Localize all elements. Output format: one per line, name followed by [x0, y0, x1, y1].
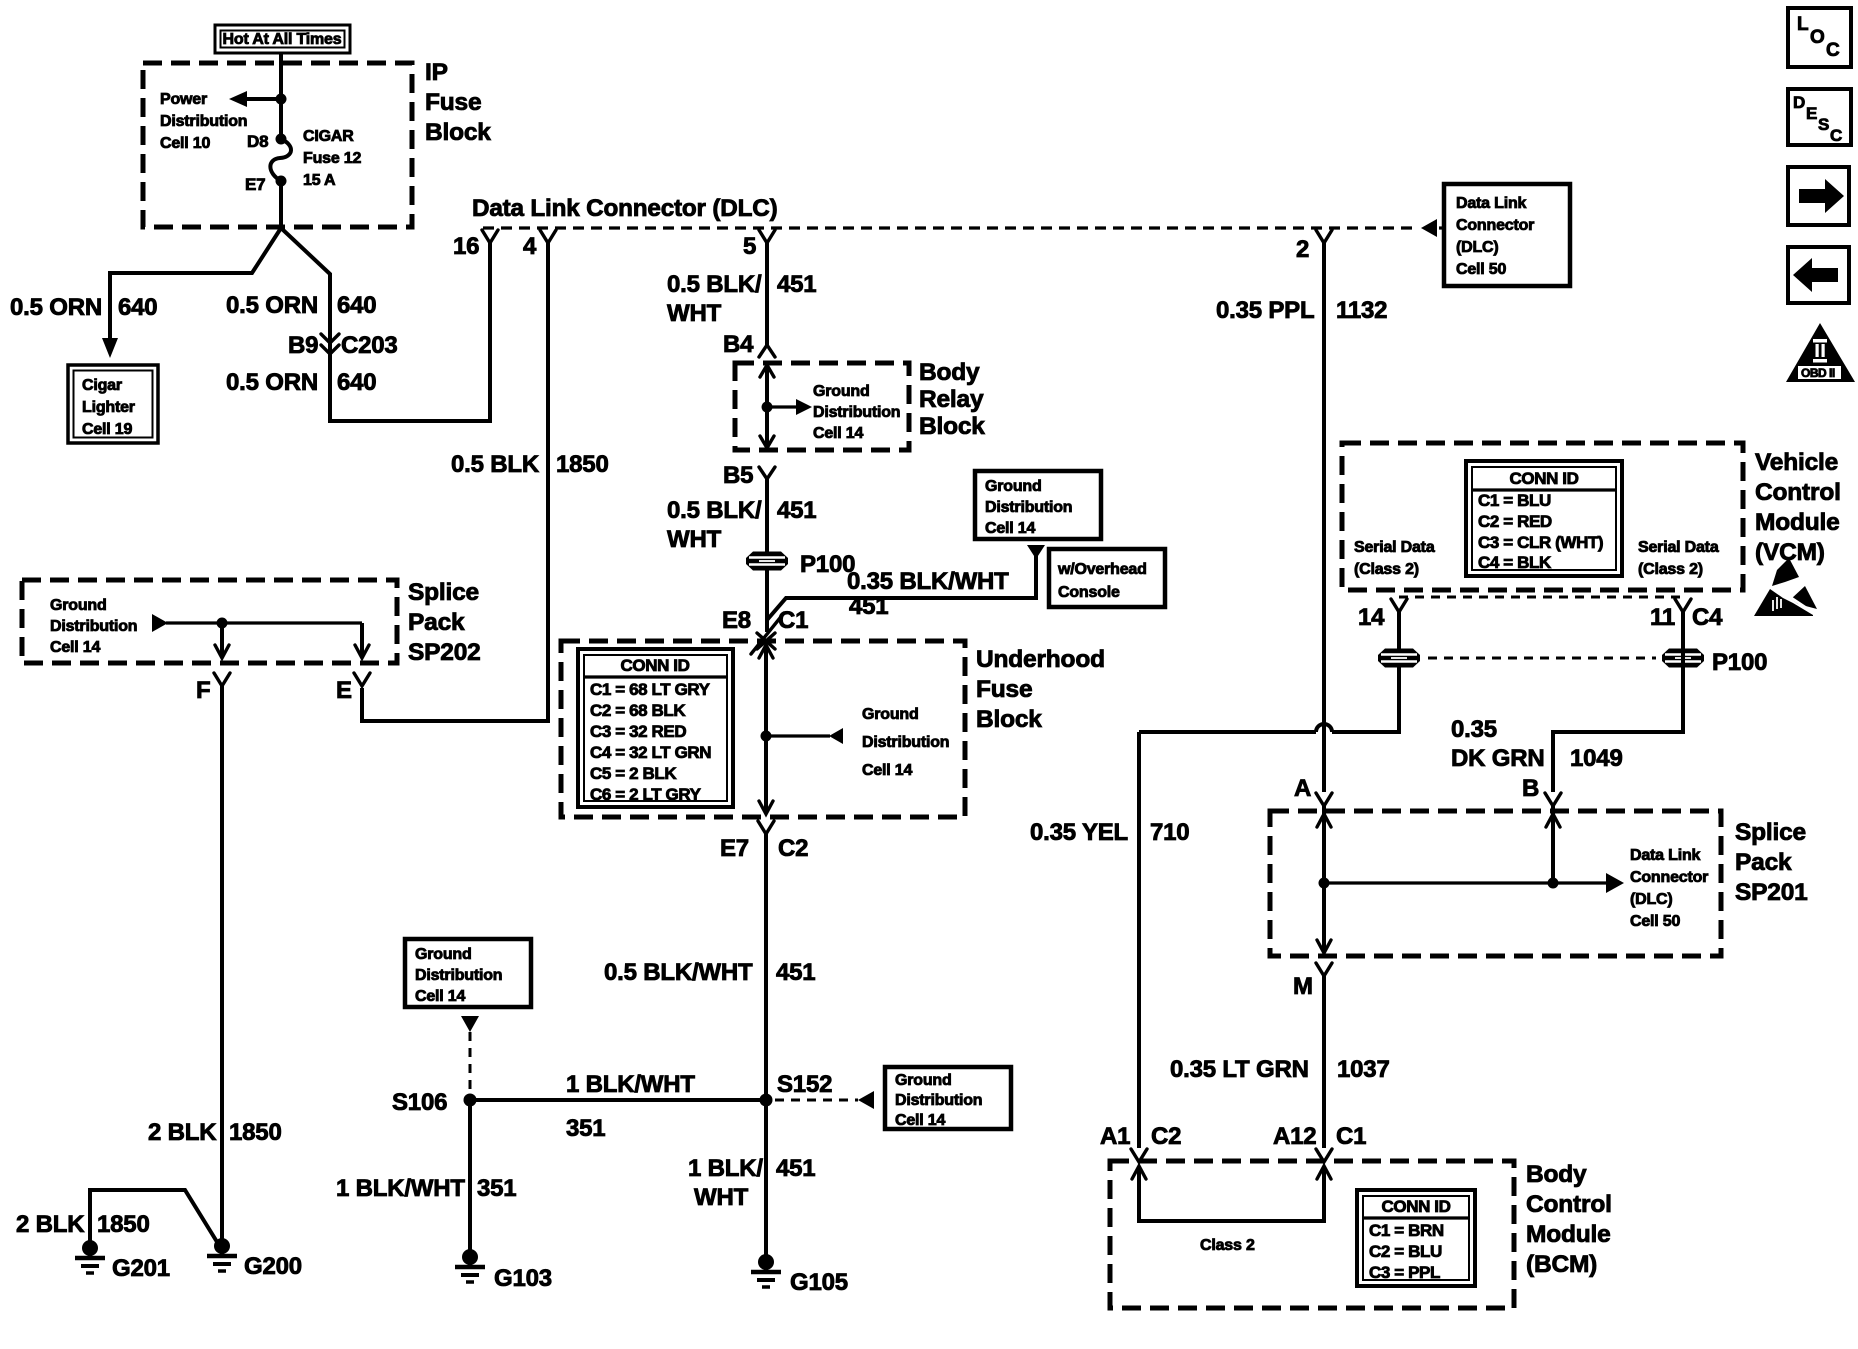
svg-text:CIGAR: CIGAR: [303, 128, 354, 145]
svg-text:E: E: [336, 677, 352, 704]
svg-text:Ground: Ground: [50, 597, 107, 614]
svg-text:0.5 ORN: 0.5 ORN: [10, 294, 102, 321]
pin D8: [276, 134, 287, 145]
Ground Distribution Cell 14 box (overhead): [975, 471, 1101, 539]
arrow into cigar lighter: [102, 338, 118, 358]
Body Control Module dashed box: [1110, 1161, 1514, 1308]
svg-text:G103: G103: [494, 1265, 552, 1292]
svg-text:w/Overhead: w/Overhead: [1057, 561, 1147, 578]
svg-text:0.5 BLK/WHT: 0.5 BLK/WHT: [604, 959, 753, 986]
wire E7 down to S152: [764, 834, 768, 1268]
SECTION: right side VCM/BCM: [1030, 243, 1841, 1308]
svg-text:Pack: Pack: [408, 609, 465, 636]
arrow up at A12: [1317, 1166, 1331, 1179]
connector A: [1316, 793, 1332, 806]
node in body relay block: [762, 402, 773, 413]
svg-text:C2 = RED: C2 = RED: [1478, 512, 1552, 531]
Data Link Connector (DLC) Cell 50 box: [1444, 184, 1570, 286]
arrow down at M exit: [1317, 940, 1331, 953]
ground G200: [207, 1238, 237, 1271]
CONN ID table (VCM): [1466, 461, 1622, 576]
svg-text:Module: Module: [1526, 1221, 1611, 1248]
svg-text:A12: A12: [1273, 1123, 1316, 1150]
svg-text:DK GRN: DK GRN: [1451, 745, 1544, 772]
svg-text:1850: 1850: [97, 1211, 150, 1238]
svg-text:C2 = 68 BLK: C2 = 68 BLK: [590, 701, 686, 720]
wire split left branch to cigar lighter: [110, 228, 281, 344]
svg-text:Distribution: Distribution: [160, 113, 247, 130]
svg-text:CONN ID: CONN ID: [1382, 1197, 1451, 1216]
svg-text:Block: Block: [976, 706, 1042, 733]
wire B5 down to E8: [765, 479, 769, 632]
svg-text:S152: S152: [777, 1071, 832, 1098]
Vehicle Control Module dashed box: [1342, 443, 1743, 590]
svg-text:Connector: Connector: [1630, 869, 1708, 886]
svg-text:1037: 1037: [1337, 1056, 1390, 1083]
wire from Hot At All Times to fuse block: [279, 53, 283, 99]
SECTION: right edge icons: [1754, 8, 1855, 616]
svg-text:B9: B9: [288, 332, 318, 359]
dashed wire down to S106: [469, 1032, 472, 1094]
svg-text:Ground: Ground: [985, 478, 1042, 495]
internal class 2 wire: [1139, 1166, 1324, 1221]
svg-text:0.35 PPL: 0.35 PPL: [1216, 297, 1314, 324]
dashed pointer from S152: [775, 1099, 858, 1102]
wire through underhood fuse block: [764, 645, 768, 813]
svg-text:Cell 50: Cell 50: [1630, 913, 1680, 930]
svg-text:C4 = 32 LT GRN: C4 = 32 LT GRN: [590, 743, 711, 762]
svg-text:E8: E8: [722, 607, 751, 634]
svg-text:Serial Data: Serial Data: [1638, 539, 1719, 556]
svg-text:0.5 ORN: 0.5 ORN: [226, 292, 318, 319]
svg-text:Body: Body: [1526, 1161, 1587, 1188]
svg-text:Distribution: Distribution: [985, 499, 1072, 516]
svg-text:0.35 BLK/WHT: 0.35 BLK/WHT: [847, 568, 1009, 595]
svg-text:E: E: [1806, 104, 1817, 123]
svg-text:(DLC): (DLC): [1456, 239, 1499, 256]
svg-text:OBD II: OBD II: [1801, 366, 1835, 380]
grommet P100 (center): [746, 552, 788, 571]
connector A1/C2: [1131, 1149, 1147, 1162]
svg-text:Console: Console: [1058, 584, 1120, 601]
arrow to Data Link Connector cell 50: [1606, 873, 1624, 893]
CONN ID table (underhood): [578, 649, 733, 807]
svg-text:Connector: Connector: [1456, 217, 1534, 234]
svg-text:SP202: SP202: [408, 639, 481, 666]
Body Relay Block dashed box: [735, 363, 909, 450]
svg-text:2: 2: [1296, 236, 1309, 263]
svg-text:C1: C1: [778, 607, 808, 634]
wire to power distribution arrow: [246, 97, 281, 101]
svg-text:(Class 2): (Class 2): [1638, 561, 1703, 578]
svg-text:Pack: Pack: [1735, 849, 1792, 876]
CONN ID table (BCM): [1357, 1190, 1475, 1286]
svg-text:E7: E7: [245, 175, 265, 194]
svg-text:C3 = 32 RED: C3 = 32 RED: [590, 722, 686, 741]
svg-text:Data Link: Data Link: [1456, 195, 1527, 212]
svg-text:Distribution: Distribution: [895, 1092, 982, 1109]
node: power distribution tap: [276, 94, 287, 105]
svg-text:C1: C1: [1336, 1123, 1366, 1150]
OBD II triangle icon: [1786, 323, 1855, 382]
arrow up at B entry: [1546, 814, 1560, 827]
w/Overhead Console box: [1049, 549, 1165, 607]
svg-text:Fuse 12: Fuse 12: [303, 150, 361, 167]
wire pin11 down to B: [1553, 612, 1683, 792]
svg-text:451: 451: [776, 1155, 815, 1182]
svg-text:Block: Block: [425, 119, 491, 146]
grommet P100 (pin14): [1378, 649, 1420, 668]
dashed link between grommets: [1428, 657, 1656, 660]
wire pin5 down to B4: [765, 243, 769, 346]
branch wire to overhead console: [767, 556, 1036, 620]
svg-text:Class 2: Class 2: [1200, 1237, 1255, 1254]
svg-text:CONN ID: CONN ID: [621, 656, 690, 675]
svg-text:O: O: [1810, 27, 1825, 48]
wire pin4 down (0.5 BLK 1850): [362, 243, 548, 721]
wire YEL drop: [1137, 732, 1141, 1148]
svg-text:14: 14: [1358, 604, 1385, 631]
svg-text:Control: Control: [1526, 1191, 1612, 1218]
bus wire in SP202: [166, 621, 362, 624]
arrow to Power Distribution Cell 10: [229, 91, 247, 107]
svg-text:0.35: 0.35: [1451, 716, 1497, 743]
Ground Distribution Cell 14 box (S152): [885, 1067, 1011, 1129]
svg-text:351: 351: [566, 1115, 605, 1142]
svg-text:Ground: Ground: [415, 946, 472, 963]
svg-text:2 BLK: 2 BLK: [148, 1119, 217, 1146]
svg-text:C1 = BLU: C1 = BLU: [1478, 491, 1551, 510]
svg-text:B: B: [1522, 775, 1539, 802]
svg-text:C4 = BLK: C4 = BLK: [1478, 553, 1552, 572]
svg-text:Control: Control: [1755, 479, 1841, 506]
svg-text:C6 = 2 LT GRY: C6 = 2 LT GRY: [590, 785, 702, 804]
DLC dashed bus line: [483, 226, 1419, 229]
arrow up top edge: [759, 645, 773, 658]
svg-text:Distribution: Distribution: [50, 618, 137, 635]
svg-text:351: 351: [477, 1175, 516, 1202]
wire A through SP201: [1322, 806, 1326, 952]
svg-text:(DLC): (DLC): [1630, 891, 1673, 908]
arrow down at bottom edge: [760, 436, 774, 448]
DLC pin 5: [759, 230, 775, 243]
svg-text:1 BLK/WHT: 1 BLK/WHT: [336, 1175, 465, 1202]
svg-text:0.5 BLK/: 0.5 BLK/: [667, 497, 762, 524]
svg-text:Hot At All Times: Hot At All Times: [223, 31, 342, 48]
wire split right branch: [281, 228, 490, 421]
left arrow icon box: [1788, 247, 1849, 303]
svg-text:Cell 10: Cell 10: [160, 135, 210, 152]
wire E drop: [360, 623, 364, 656]
svg-text:Ground: Ground: [895, 1072, 952, 1089]
VCM connector face dashed line: [1399, 596, 1683, 599]
arrow down bottom edge: [759, 801, 773, 814]
svg-text:451: 451: [777, 497, 816, 524]
svg-text:451: 451: [849, 593, 888, 620]
svg-text:C1 = 68 LT GRY: C1 = 68 LT GRY: [590, 680, 711, 699]
SECTION: top-left power feed: [10, 25, 491, 443]
svg-text:451: 451: [777, 271, 816, 298]
svg-text:640: 640: [337, 369, 376, 396]
SECTION: splice pack SP202 and grounds: [16, 579, 481, 1282]
IP Fuse Block dashed box: [143, 63, 412, 227]
svg-text:G200: G200: [244, 1253, 302, 1280]
DLC pin 4: [540, 230, 556, 243]
node in underhood block: [761, 731, 772, 742]
arrow to Ground Distribution Cell 14: [796, 399, 812, 415]
svg-text:Block: Block: [919, 413, 985, 440]
svg-text:1049: 1049: [1570, 745, 1623, 772]
ground G105: [751, 1254, 781, 1287]
svg-text:WHT: WHT: [667, 526, 722, 553]
svg-text:5: 5: [743, 233, 756, 260]
splice S106: [464, 1094, 477, 1107]
svg-text:0.5 ORN: 0.5 ORN: [226, 369, 318, 396]
svg-text:WHT: WHT: [667, 300, 722, 327]
svg-text:C4: C4: [1692, 604, 1723, 631]
svg-text:451: 451: [776, 959, 815, 986]
svg-text:Data Link Connector (DLC): Data Link Connector (DLC): [472, 195, 777, 222]
svg-text:A1: A1: [1100, 1123, 1130, 1150]
SECTION: DLC line and center column: [336, 184, 1570, 1296]
wire S106 to S152: [470, 1098, 760, 1102]
fuse F12 element: [270, 139, 291, 181]
svg-text:B5: B5: [723, 462, 753, 489]
svg-text:C: C: [1830, 126, 1842, 145]
arrow up at A1: [1132, 1166, 1146, 1179]
arrow down from box: [461, 1016, 479, 1032]
svg-text:0.35 LT GRN: 0.35 LT GRN: [1170, 1056, 1309, 1083]
node A tap: [1319, 878, 1330, 889]
Cigar Lighter Cell 19 box: [68, 365, 158, 443]
svg-text:L: L: [1797, 14, 1809, 35]
svg-text:15 A: 15 A: [303, 172, 336, 189]
svg-text:G105: G105: [790, 1269, 848, 1296]
arrow up at top edge: [760, 365, 774, 377]
connector E: [354, 673, 370, 686]
node B tap: [1548, 878, 1559, 889]
Underhood Fuse Block dashed box: [561, 641, 965, 817]
wire F down to G200: [220, 686, 224, 1250]
ground G103: [455, 1249, 485, 1282]
right arrow icon box: [1788, 167, 1849, 225]
svg-text:Relay: Relay: [919, 386, 984, 413]
svg-text:0.35 YEL: 0.35 YEL: [1030, 819, 1128, 846]
svg-text:640: 640: [337, 292, 376, 319]
svg-text:710: 710: [1150, 819, 1189, 846]
connector A12/C1: [1316, 1149, 1332, 1162]
arrow up at A entry: [1317, 814, 1331, 827]
ESD sensitive device symbol: [1772, 558, 1799, 586]
svg-text:C: C: [1826, 40, 1840, 61]
splice S152: [760, 1094, 773, 1107]
wire B into SP201: [1551, 806, 1555, 883]
grommet P100 (pin11): [1662, 649, 1704, 668]
svg-text:Distribution: Distribution: [813, 404, 900, 421]
bus wire in SP201: [1324, 881, 1608, 884]
svg-text:IP: IP: [425, 59, 448, 86]
svg-text:0.5 BLK/: 0.5 BLK/: [667, 271, 762, 298]
svg-text:A: A: [1294, 775, 1311, 802]
svg-text:E7: E7: [720, 835, 749, 862]
svg-text:G201: G201: [112, 1255, 170, 1282]
VCM pin 14: [1391, 599, 1407, 612]
svg-text:11: 11: [1650, 604, 1675, 631]
svg-text:C3 = PPL: C3 = PPL: [1369, 1263, 1440, 1282]
svg-text:C2: C2: [778, 835, 808, 862]
svg-text:1 BLK/: 1 BLK/: [688, 1155, 763, 1182]
Hot At All Times box: [215, 25, 350, 53]
svg-text:1132: 1132: [1336, 297, 1387, 324]
svg-text:0.5 BLK: 0.5 BLK: [451, 451, 540, 478]
wire S106 down to G103: [468, 1100, 472, 1263]
svg-text:Cell 14: Cell 14: [813, 425, 863, 442]
arrow to Data Link Connector cell 50 box: [1421, 219, 1437, 237]
svg-text:Splice: Splice: [408, 579, 479, 606]
wire G201 branch: [90, 1190, 222, 1250]
arrow pointer (tip left): [829, 728, 843, 744]
svg-text:Lighter: Lighter: [82, 399, 135, 416]
svg-text:F: F: [196, 677, 210, 704]
svg-text:Vehicle: Vehicle: [1755, 449, 1838, 476]
svg-text:Module: Module: [1755, 509, 1840, 536]
svg-text:Cell 50: Cell 50: [1456, 261, 1506, 278]
svg-text:SP201: SP201: [1735, 879, 1808, 906]
svg-text:D8: D8: [247, 132, 268, 151]
svg-text:Splice: Splice: [1735, 819, 1806, 846]
svg-text:Cigar: Cigar: [82, 377, 122, 394]
wire M down to A12: [1322, 976, 1326, 1148]
svg-text:Cell 14: Cell 14: [985, 520, 1035, 537]
svg-text:1850: 1850: [556, 451, 609, 478]
svg-text:Fuse: Fuse: [425, 89, 481, 116]
Splice Pack SP201 dashed box: [1270, 811, 1721, 956]
connector F: [214, 673, 230, 686]
svg-text:(Class 2): (Class 2): [1354, 561, 1419, 578]
svg-text:C3 = CLR (WHT): C3 = CLR (WHT): [1478, 533, 1603, 552]
svg-text:640: 640: [118, 294, 157, 321]
svg-text:1 BLK/WHT: 1 BLK/WHT: [566, 1071, 695, 1098]
Ground Distribution Cell 14 box (S106): [405, 939, 531, 1007]
svg-text:Cell 19: Cell 19: [82, 421, 132, 438]
VCM pin 11 / C4: [1675, 599, 1691, 612]
Splice Pack SP202 dashed box: [22, 580, 397, 663]
pin E7: [276, 176, 287, 187]
DLC pin 16: [482, 230, 498, 243]
svg-text:Ground: Ground: [813, 383, 870, 400]
svg-text:C2: C2: [1151, 1123, 1181, 1150]
svg-text:M: M: [1293, 973, 1313, 1000]
wire through body relay block: [765, 366, 769, 447]
wire pin14 down through P100: [1332, 612, 1399, 732]
svg-text:D: D: [1793, 93, 1805, 112]
connector M: [1316, 963, 1332, 976]
svg-text:Distribution: Distribution: [415, 967, 502, 984]
svg-text:C5 = 2 BLK: C5 = 2 BLK: [590, 764, 677, 783]
wire junction to fuse: [279, 99, 283, 139]
svg-text:(BCM): (BCM): [1526, 1251, 1597, 1278]
svg-text:Cell 14: Cell 14: [895, 1112, 945, 1129]
connector E7/C2: [758, 821, 774, 834]
ground G201: [75, 1240, 105, 1273]
svg-text:Data Link: Data Link: [1630, 847, 1701, 864]
wire pin2 down (0.35 PPL 1132) with hop over crossing: [1322, 243, 1326, 792]
svg-text:16: 16: [453, 233, 479, 260]
svg-text:CONN ID: CONN ID: [1510, 469, 1579, 488]
svg-text:S: S: [1818, 115, 1829, 134]
wire to ground distribution pointer: [766, 734, 830, 737]
svg-text:Cell 14: Cell 14: [50, 639, 100, 656]
svg-text:1850: 1850: [229, 1119, 282, 1146]
svg-text:Ground: Ground: [862, 706, 919, 723]
svg-text:4: 4: [523, 233, 537, 260]
svg-text:Power: Power: [160, 91, 207, 108]
svg-text:Distribution: Distribution: [862, 734, 949, 751]
wire from fuse E7 down to split: [279, 181, 283, 228]
svg-text:S106: S106: [392, 1089, 447, 1116]
svg-text:Cell 14: Cell 14: [862, 762, 912, 779]
arrow from Ground Distribution: [152, 614, 168, 632]
svg-text:Serial Data: Serial Data: [1354, 539, 1435, 556]
DESC icon box: [1788, 89, 1851, 145]
svg-text:C2 = BLU: C2 = BLU: [1369, 1242, 1442, 1261]
connector B: [1545, 793, 1561, 806]
LOC icon box: [1788, 8, 1851, 67]
svg-text:2 BLK: 2 BLK: [16, 1211, 85, 1238]
svg-text:C203: C203: [341, 332, 398, 359]
svg-text:Body: Body: [919, 359, 980, 386]
arrow up to Ground Distribution box: [1027, 545, 1045, 559]
svg-text:B4: B4: [723, 331, 754, 358]
wire F drop: [220, 623, 224, 656]
connector B9/C203 chevrons: [321, 334, 339, 354]
svg-text:Underhood: Underhood: [976, 646, 1105, 673]
DLC pin 2: [1316, 230, 1332, 243]
node F tap: [217, 618, 228, 629]
svg-text:C1 = BRN: C1 = BRN: [1369, 1221, 1444, 1240]
svg-text:WHT: WHT: [694, 1184, 749, 1211]
svg-text:Cell 14: Cell 14: [415, 988, 465, 1005]
svg-text:Fuse: Fuse: [976, 676, 1032, 703]
svg-text:P100: P100: [1712, 649, 1767, 676]
wire to ground distribution arrow: [767, 405, 797, 408]
